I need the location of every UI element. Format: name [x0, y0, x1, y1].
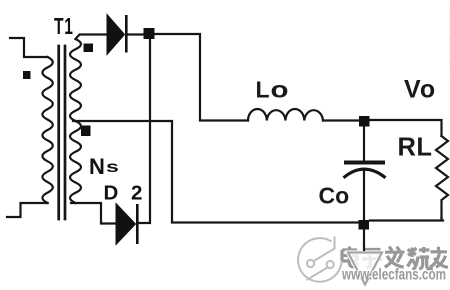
wire secondary bottom terminal to D2 anode: [71, 203, 116, 224]
diode D2 cathode bar: [136, 204, 139, 244]
svg-text:www.elecfans.com: www.elecfans.com: [341, 267, 446, 284]
wire node A down to D2 cathode: [139, 39, 150, 223]
junction node B: [359, 116, 370, 127]
svg-text:N: N: [89, 154, 105, 179]
svg-text:T1: T1: [54, 14, 74, 40]
wire secondary center tap to bottom rail: [73, 121, 358, 223]
svg-text:Vo: Vo: [404, 76, 436, 104]
resistor RL zigzag: [436, 136, 448, 218]
svg-text:L: L: [256, 77, 270, 103]
transformer T1 core line right: [64, 46, 67, 219]
junction node A: [144, 28, 155, 39]
svg-text:Co: Co: [319, 183, 350, 209]
svg-text:www.elecfans.com: www.elecfans.com: [447, 3, 450, 87]
wire RL bottom to node C: [370, 218, 443, 221]
wire input top stub: [10, 38, 48, 57]
inductor Lo: [248, 109, 323, 121]
polarity dot secondary top: [84, 44, 94, 53]
transformer T1 secondary winding lower half: [70, 121, 81, 203]
wire node C down to ground: [363, 229, 365, 250]
wire node B to top-right corner into RL: [369, 120, 442, 136]
transformer T1 core line left: [57, 46, 60, 219]
polarity dot primary: [23, 71, 31, 79]
wire Co bottom plate to node C: [363, 171, 365, 221]
diode D1 triangle: [107, 15, 125, 55]
capacitor Co top plate: [344, 161, 385, 165]
wire node B down to Co top plate: [363, 126, 365, 160]
svg-text:RL: RL: [398, 134, 433, 162]
diode D1 cathode bar: [125, 15, 128, 53]
wire D1 cathode to node A: [128, 33, 148, 35]
transformer T1 primary winding: [42, 57, 52, 203]
wire input bottom stub: [7, 203, 48, 217]
wire node A to top-right corner then down to Lo: [148, 34, 248, 121]
wire Lo to node B: [323, 119, 360, 121]
svg-text:s: s: [106, 158, 119, 176]
wire secondary top terminal to D1 anode: [76, 35, 108, 40]
polarity dot secondary middle: [81, 126, 91, 137]
watermark text 电子发烧友 (grey strokes): [342, 247, 448, 271]
svg-text:o: o: [271, 77, 289, 103]
watermark logo circle (elecfans): [298, 237, 342, 282]
capacitor Co bottom curved plate: [344, 169, 386, 178]
ground symbol: [348, 253, 382, 285]
svg-text:D 2: D 2: [104, 182, 146, 205]
diode D2 triangle: [116, 204, 136, 245]
watermark text 电子发烧友 (white emboss underlay): [341, 245, 447, 268]
junction node C: [359, 220, 370, 230]
transformer T1 secondary winding upper half: [70, 39, 81, 121]
